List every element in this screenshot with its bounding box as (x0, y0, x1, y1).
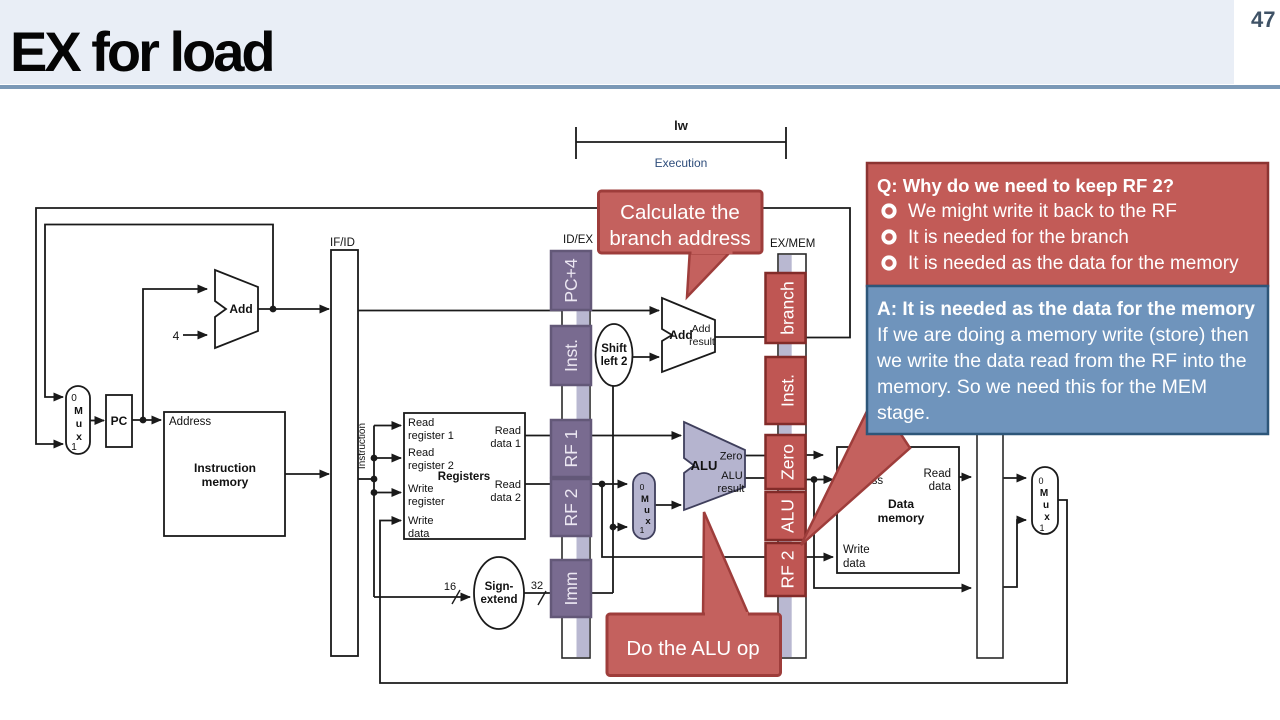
EX/MEM slot RF 2 (766, 543, 806, 596)
svg-text:x: x (76, 431, 82, 443)
callout C2 Do the ALU op (607, 512, 781, 676)
wire immediate to mux M2 input 1 (613, 526, 627, 528)
svg-text:PC+4: PC+4 (561, 258, 581, 303)
svg-text:Instruction: Instruction (357, 423, 368, 469)
PC register (106, 395, 132, 447)
svg-text:Inst.: Inst. (778, 374, 798, 407)
svg-text:data: data (929, 481, 952, 493)
wire constant 4 to Add input (183, 334, 207, 336)
callout A box (867, 286, 1268, 434)
svg-text:Registers: Registers (438, 471, 490, 483)
svg-text:data 2: data 2 (490, 492, 521, 504)
svg-text:Zero: Zero (720, 451, 743, 463)
pipeline register ID/EX (562, 234, 593, 658)
svg-text:0: 0 (71, 393, 77, 404)
EX/MEM slot Zero (766, 435, 806, 489)
svg-text:RF 2: RF 2 (778, 551, 798, 589)
svg-text:Execution: Execution (655, 156, 708, 170)
svg-text:Address: Address (169, 416, 211, 428)
header underline (0, 85, 1280, 89)
svg-text:ALU: ALU (721, 470, 742, 482)
svg-text:A: It is needed as the data fo: A: It is needed as the data for the memo… (877, 299, 1255, 320)
svg-text:u: u (76, 418, 82, 430)
wire shift left 2 to Add result (632, 356, 659, 358)
wire mux M2 to ALU (655, 504, 681, 506)
svg-text:1: 1 (640, 525, 645, 535)
slash 16 (452, 590, 460, 604)
svg-text:Read: Read (408, 447, 434, 459)
svg-text:left 2: left 2 (601, 356, 628, 368)
svg-text:ID/EX: ID/EX (563, 234, 593, 246)
wire sign-extend output to Imm slot (524, 592, 613, 594)
wire MEM/WB read data to mux M3 input 0 (1003, 477, 1026, 479)
svg-text:Calculate the: Calculate the (620, 201, 740, 224)
svg-text:result: result (689, 336, 715, 348)
wire instruction to sign-extend (374, 596, 470, 598)
svg-text:M: M (1040, 488, 1048, 499)
wire instruction memory to IF/ID (285, 473, 329, 475)
svg-text:Sign-: Sign- (485, 581, 514, 593)
instruction memory (164, 412, 285, 536)
svg-text:extend: extend (480, 594, 517, 606)
wire EX/MEM zero arrow (805, 454, 823, 456)
shift left 2 (596, 324, 633, 386)
ID/EX slot RF 1 (551, 420, 591, 477)
ID/EX slot Inst. (551, 326, 591, 385)
svg-text:register: register (408, 496, 445, 508)
callout Q box (867, 163, 1268, 286)
svg-text:data 1: data 1 (490, 438, 521, 450)
wire PC+4 feedback to mux M1 input 0 (45, 225, 273, 398)
header band (0, 0, 1234, 84)
svg-text:Read: Read (495, 479, 521, 491)
svg-text:Instruction: Instruction (194, 461, 256, 475)
node instruction bus 2 (371, 476, 378, 483)
svg-text:Read: Read (408, 417, 434, 429)
svg-text:0: 0 (1038, 476, 1043, 486)
svg-text:data: data (408, 528, 430, 540)
svg-text:branch address: branch address (609, 227, 750, 250)
svg-text:lw: lw (674, 118, 689, 133)
registers block (404, 413, 525, 540)
mux M1 (PC source) (66, 386, 90, 454)
node instruction bus 1 (371, 455, 378, 462)
svg-text:x: x (1044, 512, 1050, 523)
svg-text:Do the ALU op: Do the ALU op (626, 637, 759, 660)
node instruction bus 3 (371, 489, 378, 496)
ID/EX slot PC+4 (551, 251, 591, 310)
wire Add result to EX/MEM branch (715, 336, 766, 338)
mux M2 (ALU source, highlighted) (633, 473, 655, 539)
mux M3 (write-back) (1032, 467, 1058, 534)
svg-text:u: u (644, 505, 650, 516)
svg-text:u: u (1043, 500, 1049, 511)
ALU (highlighted) (684, 422, 745, 510)
svg-text:4: 4 (173, 329, 180, 343)
node Add out (270, 306, 277, 313)
ID/EX slot Imm (551, 560, 591, 617)
svg-text:Q: Why do we need to keep RF 2: Q: Why do we need to keep RF 2? (877, 175, 1174, 196)
svg-text:memory: memory (202, 475, 249, 489)
svg-text:It is needed for the branch: It is needed for the branch (908, 227, 1129, 248)
node immediate (610, 524, 617, 531)
pipeline register MEM/WB (977, 255, 1003, 658)
ID/EX slot RF 2 (551, 479, 591, 536)
wire PC+4 from IF/ID to Add result (under ID/EX PC+4 slot) (358, 310, 659, 312)
svg-text:branch: branch (778, 281, 798, 335)
wire write-back to Registers write data (380, 500, 1067, 683)
wire ALU zero out (745, 455, 766, 457)
svg-text:Shift: Shift (601, 343, 627, 355)
svg-text:Write: Write (843, 544, 870, 556)
svg-text:memory: memory (878, 511, 925, 525)
data memory (837, 447, 959, 573)
junction dots (140, 306, 818, 531)
wire Data memory read data to MEM/WB (959, 476, 971, 478)
wire Read data 2 to mux M2 (525, 483, 602, 485)
svg-text:Imm: Imm (561, 571, 581, 605)
pipeline register EX/MEM (770, 238, 815, 658)
svg-text:memory. So we need this for th: memory. So we need this for the MEM (877, 376, 1207, 398)
svg-text:1: 1 (1039, 523, 1044, 533)
svg-text:ALU: ALU (778, 499, 798, 533)
svg-text:we write the data read from th: we write the data read from the RF into … (876, 350, 1247, 372)
callout C1 Calculate the branch address (599, 191, 763, 297)
svg-text:M: M (74, 405, 83, 417)
pipeline register IF/ID (330, 237, 358, 656)
wire PC to instruction memory Address (132, 419, 161, 421)
svg-text:x: x (645, 516, 651, 527)
wire immediate up to shift left 2 (612, 386, 614, 593)
svg-text:RF 2: RF 2 (561, 489, 581, 527)
svg-text:PC: PC (111, 414, 128, 428)
sign-extend (474, 557, 524, 629)
EX/MEM slot branch (766, 273, 806, 343)
svg-text:If we are doing a memory write: If we are doing a memory write (store) t… (877, 324, 1249, 346)
callout Q tail to EX/MEM RF 2 (801, 395, 910, 545)
svg-text:Add: Add (692, 323, 711, 335)
svg-text:Write: Write (408, 483, 433, 495)
page number 47 (1251, 7, 1275, 33)
svg-text:data: data (843, 558, 866, 570)
svg-text:Read: Read (924, 468, 952, 480)
EX/MEM slot ALU (766, 492, 806, 540)
node read data 2 (599, 481, 606, 488)
svg-text:Data: Data (888, 497, 914, 511)
svg-text:Zero: Zero (778, 444, 798, 480)
svg-text:1: 1 (71, 442, 77, 453)
wire Read data 1 to ALU (525, 435, 681, 437)
wire ALU result bypass to MEM/WB (814, 480, 971, 589)
svg-text:We might write it back to the: We might write it back to the RF (908, 201, 1177, 222)
svg-text:RF 1: RF 1 (561, 430, 581, 468)
wire instruction bus from IF/ID (358, 478, 374, 480)
wire Add output to IF/ID (258, 308, 329, 310)
EX/MEM slot Inst. (766, 357, 806, 424)
svg-text:ALU: ALU (691, 458, 718, 473)
svg-text:M: M (641, 494, 649, 505)
wire mux M1 to PC (90, 420, 104, 422)
svg-text:stage.: stage. (877, 402, 930, 424)
slash 32 (538, 591, 546, 605)
wire MEM/WB ALU result to mux M3 input 1 (1003, 520, 1026, 587)
wire ALU result out (745, 477, 766, 479)
svg-text:IF/ID: IF/ID (330, 237, 355, 249)
svg-text:16: 16 (444, 581, 456, 593)
adder Add result (662, 298, 715, 372)
svg-text:0: 0 (640, 482, 645, 492)
wire Read data 2 down to EX/MEM RF 2 and Data memory write data (602, 484, 833, 557)
svg-text:register 1: register 1 (408, 430, 454, 442)
svg-text:Add: Add (229, 302, 252, 316)
svg-text:Read: Read (495, 425, 521, 437)
wire PC up to Add input (143, 289, 207, 420)
adder Add (215, 270, 258, 348)
title (10, 19, 273, 84)
svg-text:EX/MEM: EX/MEM (770, 238, 815, 250)
svg-text:32: 32 (531, 580, 543, 592)
wire EX/MEM ALU result to Data memory address (805, 479, 833, 481)
node PC out (140, 417, 147, 424)
wire branch feedback to mux M1 input 1 (36, 208, 850, 444)
svg-text:result: result (718, 483, 745, 495)
svg-text:It is needed as the data for t: It is needed as the data for the memory (908, 253, 1239, 274)
svg-text:Write: Write (408, 515, 433, 527)
lw bracket (576, 127, 786, 159)
svg-text:Inst.: Inst. (561, 339, 581, 372)
node ALU result (811, 476, 818, 483)
